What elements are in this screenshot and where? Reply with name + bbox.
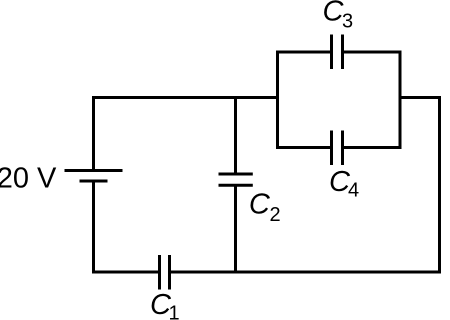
wire [343,52,401,148]
svg-text:4: 4 [348,180,359,202]
capacitor C3 [332,35,343,70]
wire [94,98,280,171]
battery B1 [65,171,123,182]
capacitor C4 [332,131,343,166]
label C2 [249,188,281,226]
svg-text:1: 1 [169,303,180,320]
wire [278,52,332,148]
wire [171,98,440,273]
label C1 [150,289,180,320]
svg-text:C: C [249,188,271,220]
svg-text:20 V: 20 V [0,162,57,194]
wire [234,98,237,173]
capacitor C2 [219,174,253,185]
wire [94,181,159,272]
label C4 [329,166,359,201]
wire [234,187,237,273]
svg-text:2: 2 [270,204,281,226]
capacitor C1 [160,255,170,290]
svg-text:3: 3 [342,11,353,33]
label C3 [323,0,354,33]
